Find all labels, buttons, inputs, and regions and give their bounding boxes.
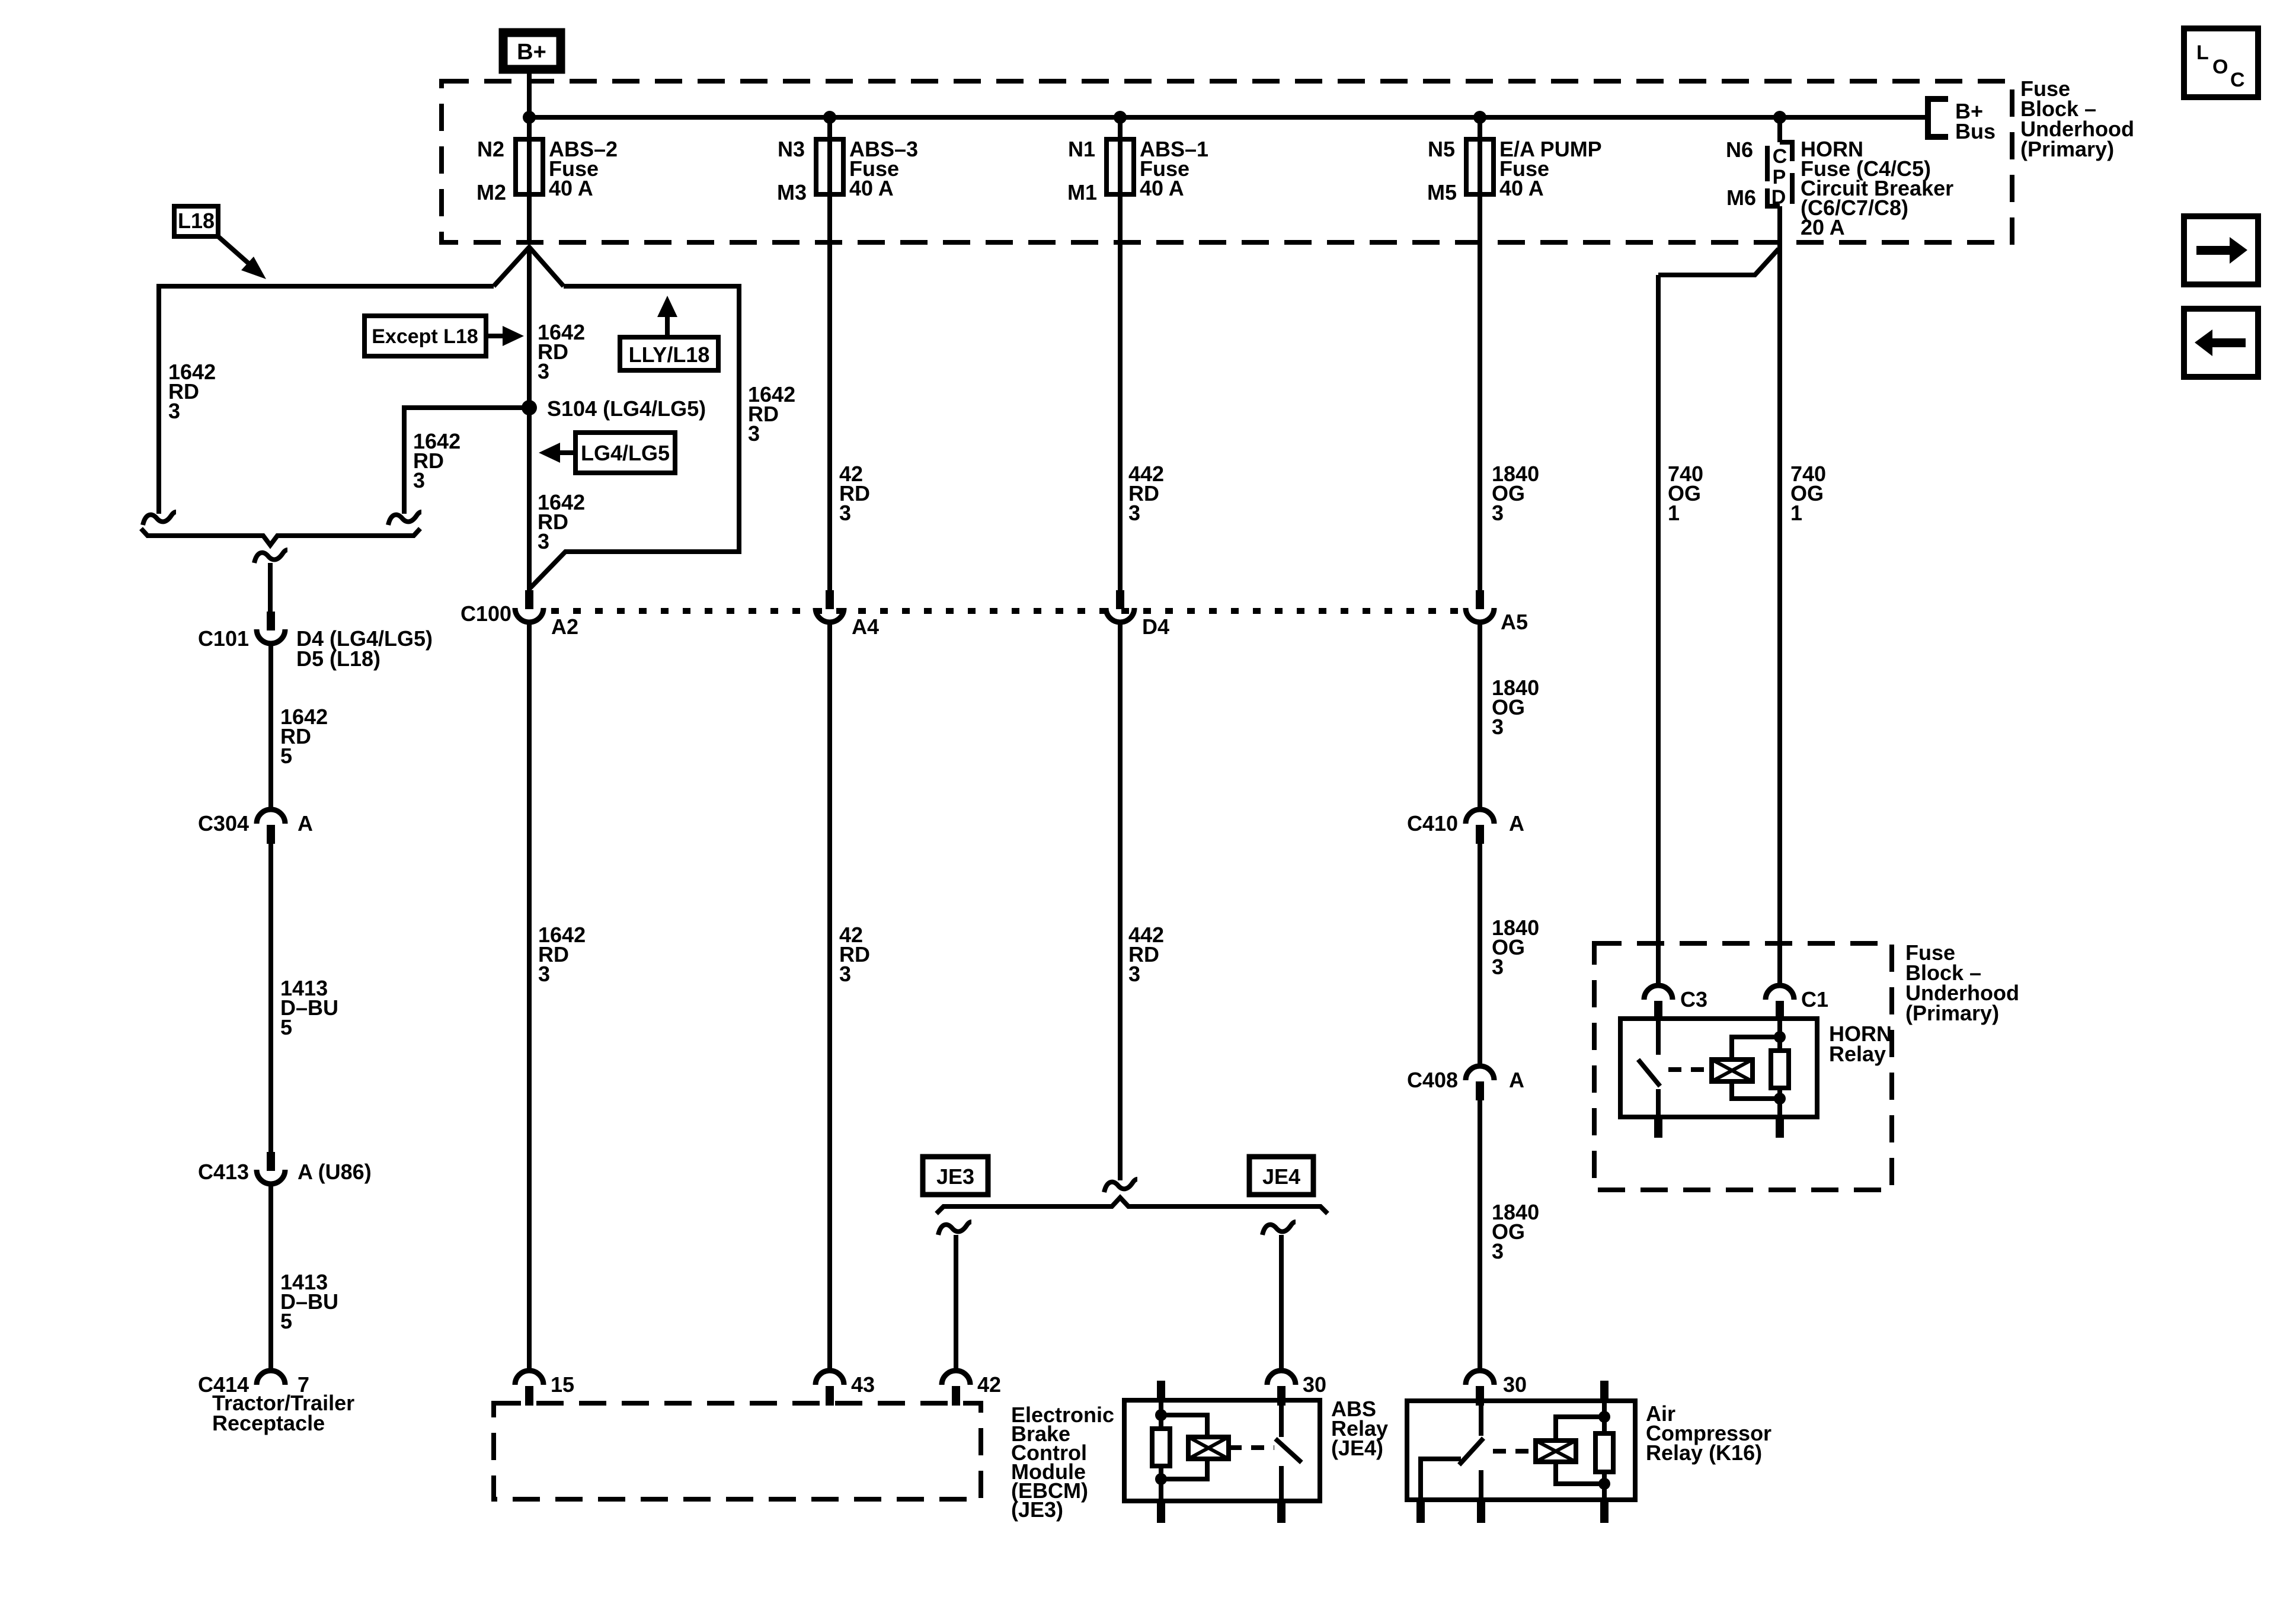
svg-text:1: 1	[1668, 501, 1680, 525]
svg-text:O: O	[2212, 56, 2228, 78]
label ABS-3 Fuse 40 A	[849, 137, 918, 200]
wire 1642 RD right branch (LLY/L18)	[529, 286, 739, 589]
svg-text:L18: L18	[178, 209, 215, 233]
svg-text:3: 3	[1492, 955, 1504, 979]
wire break above C101	[254, 550, 287, 563]
relay ABS switch	[1275, 1400, 1302, 1501]
connector C100 pin D4	[1106, 590, 1134, 622]
svg-text:A2: A2	[551, 614, 578, 639]
wire break 442 RD above brace	[1104, 1179, 1137, 1192]
svg-text:30: 30	[1503, 1372, 1527, 1397]
relay K16 coil parallel resistor	[1556, 1381, 1613, 1500]
connector horn relay pin C1	[1766, 985, 1794, 1020]
svg-text:C100: C100	[461, 601, 511, 626]
relay K16 bottom pin (middle)	[1477, 1500, 1485, 1523]
svg-text:5: 5	[280, 1015, 292, 1039]
label circuit 1642 RD 3 (mid branch)	[413, 429, 461, 492]
svg-text:D4: D4	[1142, 614, 1169, 639]
callout L18	[174, 206, 266, 279]
fuse block underhood dashed outline	[442, 81, 2012, 242]
wire 1642 RD branch to S104	[404, 408, 529, 514]
svg-text:N5: N5	[1428, 137, 1455, 161]
label circuit 740 OG 1 (left)	[1668, 462, 1703, 525]
callout Except L18	[364, 316, 524, 356]
svg-text:Relay (K16): Relay (K16)	[1646, 1441, 1762, 1465]
brace merge to C101	[141, 529, 420, 545]
svg-text:3: 3	[413, 468, 425, 492]
svg-text:C3: C3	[1680, 987, 1707, 1012]
svg-text:40 A: 40 A	[549, 176, 593, 200]
svg-text:M6: M6	[1726, 185, 1756, 210]
relay ABS bottom pin (left)	[1157, 1501, 1165, 1523]
svg-text:(JE3): (JE3)	[1011, 1497, 1063, 1522]
wire 1642 RD left branch (Except L18)	[159, 286, 494, 514]
relay K16 actuation dashes	[1493, 1449, 1536, 1454]
callout JE4	[1249, 1157, 1313, 1195]
svg-text:3: 3	[538, 529, 549, 553]
label circuit 1642 RD 5	[280, 705, 328, 768]
svg-text:C408: C408	[1407, 1068, 1458, 1092]
junction node bus/ABS-3	[823, 111, 836, 124]
connector EBCM pin 42	[942, 1371, 970, 1406]
junction node bus/ABS-2	[523, 111, 536, 124]
connector C408 pin A	[1466, 1066, 1494, 1100]
label circuit 1840 OG 3 (second)	[1492, 676, 1539, 739]
wire to ABS relay pin 30	[1279, 1235, 1284, 1371]
svg-text:40 A: 40 A	[849, 176, 894, 200]
label circuit 442 RD 3 (below C100)	[1128, 923, 1164, 986]
connector C100 bulkhead dotted line	[551, 608, 1464, 614]
svg-text:N3: N3	[778, 137, 805, 161]
relay ABS coil	[1188, 1437, 1229, 1459]
svg-text:43: 43	[851, 1372, 875, 1397]
wire B+ bus	[529, 115, 1928, 120]
svg-text:3: 3	[538, 962, 550, 986]
svg-text:3: 3	[839, 962, 851, 986]
junction node bus/ABS-1	[1114, 111, 1127, 124]
svg-text:M3: M3	[777, 180, 807, 204]
wire 1642 RD to C101	[268, 563, 273, 612]
relay ABS (JE4) outline	[1124, 1400, 1320, 1501]
label circuit 442 RD 3	[1128, 462, 1164, 525]
label HORN Fuse circuit breaker 20 A	[1801, 137, 1953, 239]
wire ABS-2 fuse output	[527, 197, 532, 244]
svg-text:M2: M2	[477, 180, 506, 204]
label circuit 1413 D-BU 5	[280, 976, 338, 1039]
svg-text:3: 3	[168, 399, 180, 423]
svg-text:(Primary): (Primary)	[2020, 137, 2114, 161]
svg-text:40 A: 40 A	[1499, 176, 1544, 200]
connector C101 pin D4/D5	[257, 612, 285, 644]
svg-text:A: A	[1509, 811, 1524, 836]
connector horn relay pin C3	[1644, 985, 1673, 1020]
relay HORN switch	[1638, 1019, 1660, 1117]
connector C100 pin A4	[816, 590, 844, 622]
connector C100 pin A2	[515, 590, 543, 622]
wire split below ABS-2 fuse	[494, 247, 564, 286]
label circuit 1642 RD 3 (below S104)	[538, 490, 585, 553]
svg-text:P: P	[1773, 166, 1786, 188]
connector C100 pin A5	[1466, 590, 1494, 622]
svg-text:LLY/L18: LLY/L18	[629, 343, 710, 367]
relay ABS bottom pin (right)	[1277, 1501, 1285, 1523]
svg-text:C: C	[1773, 145, 1787, 168]
svg-text:Except L18: Except L18	[372, 325, 478, 348]
fuse ABS-2 (N2/M2) 40 A	[516, 116, 543, 201]
connector EBCM pin 43	[816, 1371, 844, 1406]
connector C413 pin A (U86)	[257, 1152, 285, 1184]
nav box LOC	[2184, 28, 2258, 97]
label circuit 1642 RD 3 (top)	[538, 320, 585, 383]
svg-text:LG4/LG5: LG4/LG5	[581, 441, 670, 465]
svg-text:A: A	[1509, 1068, 1524, 1092]
relay K16 bottom pin (right)	[1600, 1500, 1609, 1523]
label E/A PUMP Fuse 40 A	[1499, 137, 1602, 200]
label ABS Relay (JE4)	[1331, 1397, 1388, 1460]
label circuit 1642 RD 3 (right branch)	[748, 382, 795, 446]
label ABS-2 Fuse 40 A	[549, 137, 618, 200]
wire break S104 branch	[388, 512, 421, 525]
label Air Compressor Relay (K16)	[1646, 1401, 1771, 1465]
wire 42 RD from ABS-3 fuse to C100 A4	[827, 197, 832, 597]
svg-text:C410: C410	[1407, 811, 1458, 836]
wire to EBCM pin 42	[954, 1235, 958, 1371]
nav box arrow right	[2184, 216, 2258, 284]
relay ABS internals	[1152, 1381, 1207, 1501]
fuse ABS-1 (N1/M1) 40 A	[1107, 116, 1134, 201]
svg-text:5: 5	[280, 1309, 292, 1333]
svg-text:B+: B+	[517, 40, 546, 65]
wire 1840 OG C100 A5 to C410	[1478, 622, 1482, 810]
label Fuse Block Underhood (Primary) lower	[1905, 940, 2019, 1025]
terminal B+ Bus	[1928, 99, 1996, 143]
wire 1840 OG C410 to C408	[1478, 844, 1482, 1065]
module EBCM dashed outline	[494, 1403, 981, 1499]
wire break above EBCM 42	[938, 1222, 971, 1235]
wire branch 740 OG to C3	[1658, 249, 1779, 985]
svg-text:L: L	[2196, 41, 2209, 64]
relay HORN outline	[1620, 1019, 1817, 1117]
svg-text:(Primary): (Primary)	[1905, 1001, 1999, 1025]
svg-text:D: D	[1771, 186, 1786, 209]
svg-text:A (U86): A (U86)	[298, 1160, 372, 1184]
svg-text:S104 (LG4/LG5): S104 (LG4/LG5)	[547, 396, 706, 421]
svg-text:3: 3	[1492, 715, 1504, 739]
relay HORN coil parallel resistor	[1732, 1019, 1789, 1117]
svg-text:40 A: 40 A	[1140, 176, 1184, 200]
svg-text:3: 3	[1128, 962, 1140, 986]
svg-text:1: 1	[1790, 501, 1802, 525]
connector EBCM pin 15	[515, 1371, 543, 1406]
label Electronic Brake Control Module (EBCM) (JE3)	[1011, 1403, 1114, 1522]
nav box arrow left	[2184, 309, 2258, 377]
wire break above ABS relay 30	[1262, 1222, 1296, 1235]
wire 1413 D-BU C304 to C413	[268, 844, 273, 1158]
label D4 (LG4/LG5) D5 (L18)	[296, 626, 433, 671]
relay K16 coil	[1536, 1441, 1576, 1462]
label circuit 1642 RD 3 (below C100)	[538, 923, 586, 986]
label circuit 42 RD 3 (below C100)	[839, 923, 870, 986]
callout JE3	[923, 1157, 988, 1195]
wire 1840 OG from E/A PUMP fuse to C100 A5	[1478, 197, 1482, 597]
wire 740 OG from breaker to horn relay C1	[1777, 206, 1782, 985]
circuit breaker CPD HORN (N6/M6) 20 A	[1767, 117, 1792, 209]
svg-text:A5: A5	[1501, 610, 1528, 634]
label circuit 740 OG 1 (right)	[1790, 462, 1826, 525]
label circuit 1840 OG 3	[1492, 462, 1539, 525]
svg-text:A: A	[298, 811, 313, 836]
callout LLY/L18	[620, 296, 718, 370]
svg-text:3: 3	[1492, 1239, 1504, 1263]
wire 1840 OG C408 to air compressor relay	[1478, 1100, 1482, 1371]
svg-text:JE3: JE3	[936, 1164, 974, 1189]
label circuit 1840 OG 3 (fourth)	[1492, 1200, 1539, 1263]
label circuit 1642 RD 3 (left branch)	[168, 360, 216, 423]
svg-text:C101: C101	[198, 626, 249, 651]
svg-text:5: 5	[280, 744, 292, 768]
svg-text:C304: C304	[198, 811, 249, 836]
svg-text:Receptacle: Receptacle	[212, 1411, 325, 1435]
svg-text:D5 (L18): D5 (L18)	[296, 646, 380, 671]
relay ABS actuation dashes	[1229, 1445, 1274, 1450]
label circuit 1840 OG 3 (third)	[1492, 916, 1539, 979]
wire 1413 D-BU C413 to C414	[268, 1183, 273, 1371]
relay K16 switch	[1421, 1401, 1483, 1500]
label Fuse Block Underhood (Primary)	[2020, 76, 2134, 161]
svg-text:C1: C1	[1801, 987, 1828, 1012]
splice S104	[522, 400, 537, 415]
relay K16 bottom pin (left)	[1416, 1500, 1425, 1523]
svg-text:N2: N2	[477, 137, 504, 161]
junction node bus/HORN	[1773, 111, 1786, 124]
label circuit 1413 D-BU 5 (lower)	[280, 1270, 338, 1333]
callout LG4/LG5	[539, 433, 675, 473]
svg-text:Bus: Bus	[1955, 119, 1996, 143]
connector C414 pin 7	[257, 1371, 285, 1385]
fuse block underhood (horn relay) dashed outline	[1594, 943, 1892, 1190]
label Tractor/Trailer Receptacle	[212, 1391, 354, 1435]
svg-text:3: 3	[1128, 501, 1140, 525]
svg-text:3: 3	[1492, 501, 1504, 525]
svg-text:3: 3	[538, 359, 549, 383]
relay HORN actuation dashes	[1668, 1067, 1712, 1072]
connector ABS relay pin 30	[1267, 1371, 1296, 1406]
wire B+ feed to bus	[527, 73, 532, 117]
svg-text:15: 15	[551, 1372, 574, 1397]
svg-text:Relay: Relay	[1829, 1042, 1886, 1066]
wire break left branch	[143, 512, 176, 525]
label ABS-1 Fuse 40 A	[1140, 137, 1208, 200]
label HORN Relay	[1829, 1022, 1892, 1066]
svg-text:N1: N1	[1068, 137, 1095, 161]
svg-text:30: 30	[1303, 1372, 1326, 1397]
svg-text:42: 42	[977, 1372, 1001, 1397]
relay HORN bottom pin (right)	[1776, 1117, 1784, 1138]
wire 1642 RD C101 to C304	[268, 643, 273, 808]
svg-text:C413: C413	[198, 1160, 249, 1184]
svg-text:M5: M5	[1427, 180, 1457, 204]
wire 1642 RD main to C100 A2	[527, 247, 532, 590]
fuse E/A PUMP (N5/M5) 40 A	[1466, 116, 1494, 201]
label circuit 42 RD 3	[839, 462, 870, 525]
connector C410 pin A	[1466, 809, 1494, 844]
wire 1642 RD C100 to EBCM pin 15	[527, 622, 532, 1371]
wire 42 RD C100 to EBCM pin 43	[827, 622, 832, 1371]
relay air compressor (K16) outline	[1407, 1401, 1635, 1500]
relay HORN coil	[1712, 1060, 1753, 1081]
brace splice JE3/JE4	[936, 1198, 1328, 1214]
svg-text:A4: A4	[852, 614, 879, 639]
svg-text:N6: N6	[1726, 137, 1753, 162]
svg-text:M1: M1	[1067, 180, 1097, 204]
connector air compressor relay pin 30	[1466, 1371, 1494, 1406]
junction node bus/EA-PUMP	[1473, 111, 1486, 124]
fuse ABS-3 (N3/M3) 40 A	[816, 116, 843, 201]
svg-text:JE4: JE4	[1262, 1164, 1300, 1189]
svg-text:(JE4): (JE4)	[1331, 1436, 1383, 1460]
wire 442 RD C100 to splice break	[1118, 622, 1123, 1180]
svg-text:3: 3	[748, 421, 760, 446]
power feed B+	[503, 33, 561, 69]
wire 442 RD from ABS-1 fuse to C100 D4	[1118, 197, 1123, 597]
connector C304 pin A	[257, 809, 285, 844]
svg-text:20 A: 20 A	[1801, 215, 1845, 239]
relay HORN bottom pin (left)	[1654, 1117, 1662, 1138]
svg-text:3: 3	[839, 501, 851, 525]
svg-text:C: C	[2230, 69, 2245, 91]
